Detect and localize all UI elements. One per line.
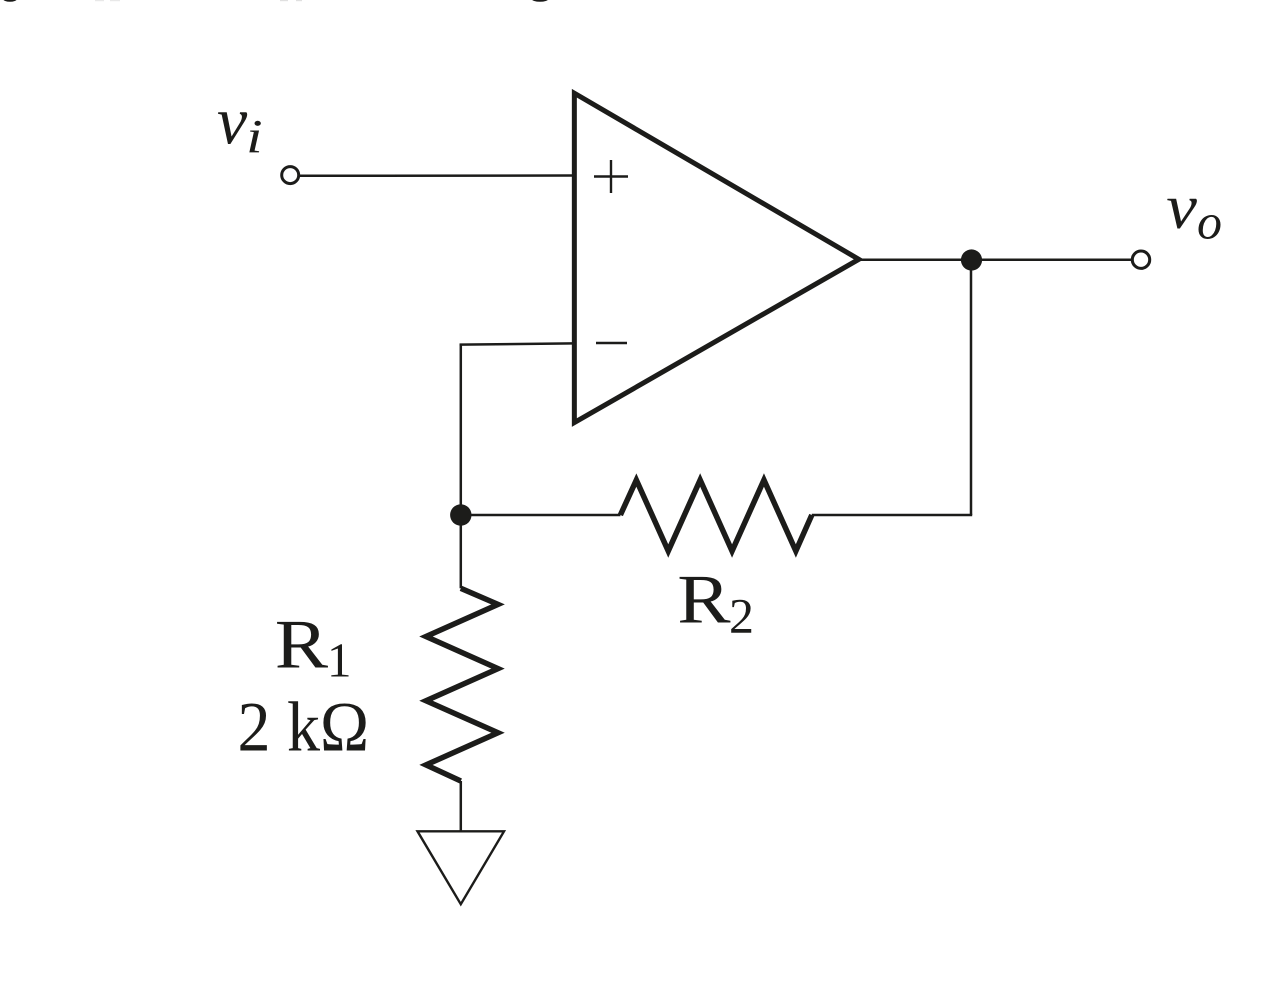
svg-text:2: 2 — [729, 587, 754, 643]
op-amp - input marker — [596, 342, 627, 345]
input terminal (open circle) — [282, 167, 299, 184]
wire: node down to R1 — [460, 515, 463, 588]
wire: op-amp output — [856, 259, 1132, 262]
wire: R1 to ground — [460, 781, 463, 832]
junction dot (output node) — [961, 249, 982, 270]
svg-text:v: v — [217, 82, 248, 158]
svg-text:o: o — [1197, 193, 1222, 249]
svg-text:R: R — [275, 606, 328, 683]
op-amp U1 triangle — [574, 93, 858, 422]
cropped heading text fragments (top edge) — [3, 0, 548, 2]
wire: feedback vertical (left) — [460, 344, 463, 516]
wire: output node down to R2 — [970, 260, 973, 515]
ground symbol — [418, 831, 505, 904]
wire: R2 left lead — [461, 514, 621, 517]
svg-text:v: v — [1166, 172, 1197, 242]
wire: inverting input horizontal — [460, 343, 574, 344]
resistor R1 zigzag — [426, 588, 498, 781]
svg-text:i: i — [246, 110, 263, 163]
svg-text:1: 1 — [327, 632, 352, 687]
output terminal (open circle) — [1132, 251, 1149, 268]
junction dot (inverting node) — [450, 504, 471, 525]
wire: vi terminal to op-amp + input — [300, 174, 574, 177]
wire: R2 right lead — [812, 514, 972, 517]
op-amp + input marker — [594, 160, 628, 193]
svg-text:R: R — [677, 561, 730, 638]
resistor R2 zigzag — [620, 480, 811, 551]
svg-text:2 kΩ: 2 kΩ — [238, 687, 370, 766]
